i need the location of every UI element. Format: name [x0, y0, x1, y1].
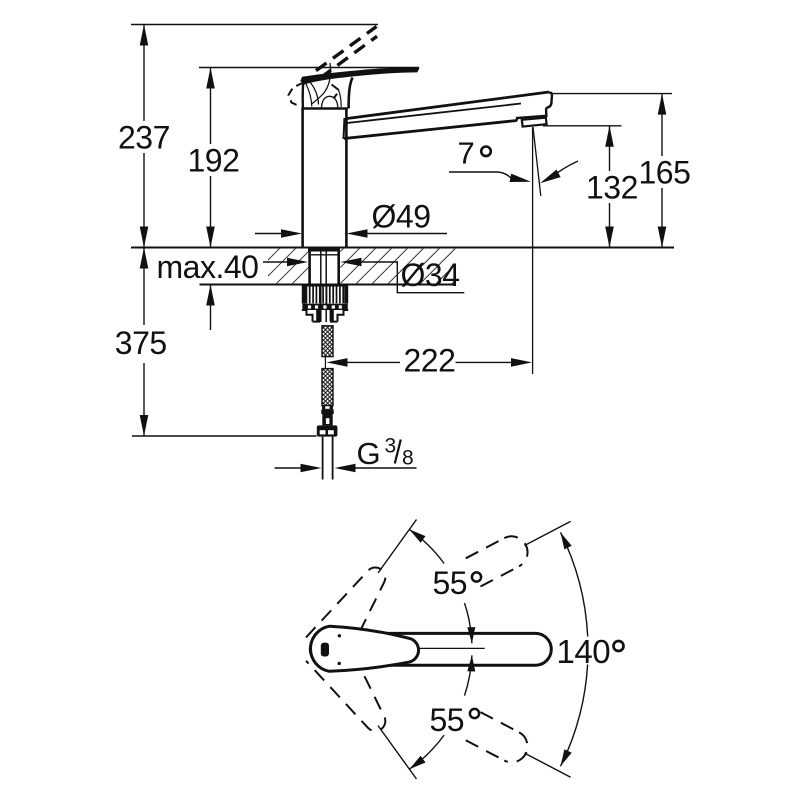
- reference line hose end (375 datum): [132, 435, 317, 437]
- arc 55 upper: [409, 529, 444, 563]
- radial upper-right: [525, 521, 571, 545]
- arc 140: [561, 532, 588, 636]
- dashed spout swung up: [466, 531, 533, 587]
- reference line spout top right (165 datum): [552, 93, 672, 95]
- svg-text:55: 55: [430, 702, 465, 738]
- dimension G3/8 line: [275, 467, 304, 469]
- spout root left end: [344, 118, 345, 139]
- lever rotation arc 1: [312, 63, 331, 104]
- castellated ring: [302, 304, 347, 310]
- svg-text:55: 55: [433, 565, 468, 601]
- svg-text:3: 3: [385, 435, 396, 458]
- faucet body top line: [301, 107, 347, 110]
- svg-text:375: 375: [115, 325, 167, 361]
- countertop bottom line: [200, 284, 456, 286]
- lever blade (solid, horizontal): [301, 68, 419, 84]
- cone inner bars: [316, 310, 320, 321]
- dimension 165 line: [661, 94, 663, 156]
- raised lever dashed outline lower: [321, 36, 378, 78]
- cartridge dome arc: [322, 96, 338, 108]
- svg-text:140: 140: [557, 633, 611, 670]
- aerator: [522, 118, 547, 127]
- water stream 7 deg line: [533, 127, 541, 196]
- dimension 237 line: [143, 25, 145, 122]
- dimension diameter 49: [255, 233, 283, 235]
- shank collar: [308, 249, 340, 252]
- lever sculpt arc 3: [306, 84, 312, 107]
- reference line lever top (192 datum): [199, 67, 419, 69]
- countertop hatch right: [340, 249, 455, 284]
- svg-text:222: 222: [404, 343, 456, 379]
- svg-text:165: 165: [639, 155, 691, 191]
- centerline: [419, 647, 485, 649]
- svg-text:192: 192: [188, 143, 240, 179]
- hose break centerline: [324, 357, 326, 369]
- spout underside: [344, 121, 517, 139]
- dimension 132 line: [609, 126, 611, 171]
- svg-text:8: 8: [402, 447, 413, 470]
- svg-text:7: 7: [458, 136, 475, 171]
- hose end fitting: [322, 406, 333, 410]
- radial lower-right: [525, 753, 571, 777]
- countertop hatch left: [268, 249, 309, 284]
- svg-text:132: 132: [586, 170, 638, 206]
- dashed spout swung down: [466, 712, 533, 768]
- dimension 222 line: [345, 361, 400, 363]
- arc 55 lower: [409, 735, 444, 769]
- lever cap left face: [302, 81, 305, 109]
- svg-text:Ø34: Ø34: [401, 257, 460, 293]
- serrated mounting nut: [302, 285, 348, 287]
- raised lever dashed fragment: [332, 85, 340, 99]
- dashed handle swung down: [306, 635, 400, 743]
- spout head outline: [517, 92, 552, 120]
- water stream vertical line: [532, 127, 534, 374]
- spout top edge: [347, 92, 549, 119]
- radial upper-left: [378, 520, 417, 574]
- stepped cone outline: [302, 310, 348, 322]
- lever neck right face: [349, 78, 353, 109]
- reference line outlet (132 datum): [543, 125, 622, 127]
- lever sculpt arc 4: [339, 90, 342, 107]
- dimension 375 line: [143, 248, 145, 326]
- dimension diameter 34 leader: [263, 261, 289, 263]
- braided hose upper segment: [322, 326, 333, 357]
- handle logo mark: [321, 643, 329, 657]
- shank left wall: [308, 248, 311, 286]
- handle dot top: [338, 634, 341, 637]
- shank inner line: [311, 254, 338, 256]
- svg-text:max.40: max.40: [157, 249, 259, 285]
- spout chamfer line: [347, 104, 521, 124]
- braided hose lower segment: [322, 369, 333, 406]
- connection tube: [322, 437, 324, 480]
- countertop top line: [131, 247, 674, 249]
- dimension max.40 bottom arrow: [210, 285, 212, 331]
- faucet body left edge: [301, 109, 304, 248]
- reference line top (237 datum): [131, 24, 378, 26]
- connection nut: [317, 425, 338, 436]
- handle dot bottom: [338, 662, 341, 665]
- raised lever dashed tail: [289, 83, 304, 107]
- svg-text:Ø49: Ø49: [372, 199, 431, 235]
- spout top view (stadium): [310, 633, 551, 665]
- dimension 192 line: [210, 68, 212, 145]
- radial lower-left: [378, 726, 417, 779]
- shank right wall: [337, 248, 340, 286]
- lever rotation arc 2: [310, 82, 319, 105]
- handle top view: [310, 626, 418, 671]
- svg-text:237: 237: [118, 120, 170, 156]
- faucet body right edge: [345, 109, 348, 248]
- dashed handle swung up: [306, 556, 400, 664]
- raised lever dashed outline upper: [316, 27, 377, 71]
- hose inner lines through shank: [320, 249, 322, 323]
- svg-text:G: G: [357, 436, 381, 471]
